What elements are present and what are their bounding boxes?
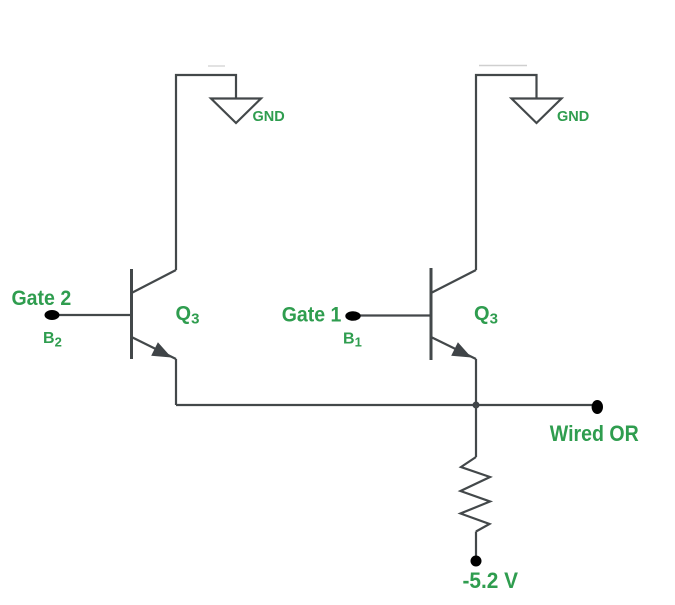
svg-text:Gate 1: Gate 1	[282, 304, 342, 327]
svg-text:B2: B2	[43, 330, 62, 350]
node Wired OR (output dot)	[592, 400, 603, 414]
transistor Q3 (left): emitter diagonal	[132, 337, 177, 359]
wire (right collector top horizontal)	[476, 75, 537, 270]
wire (left emitter vertical)	[175, 359, 177, 405]
svg-text:Q3: Q3	[474, 303, 498, 328]
transistor Q3 (right): base bar	[430, 268, 433, 360]
transistor Q3 (left): collector diagonal	[132, 270, 177, 293]
wire (resistor top lead)	[475, 405, 477, 457]
junction (wired-OR node)	[473, 402, 480, 409]
label -5.2 V	[463, 568, 519, 593]
transistor Q3 (right): collector diagonal	[431, 270, 476, 293]
svg-text:GND: GND	[253, 109, 285, 125]
svg-text:Q3: Q3	[176, 303, 200, 328]
wire (right emitter vertical)	[475, 359, 477, 405]
wire (right base wire)	[353, 314, 430, 316]
node B2 (input dot)	[45, 310, 60, 320]
transistor Q3 (left): emitter arrow	[151, 342, 171, 357]
svg-text:GND: GND	[557, 109, 589, 125]
transistor Q3 (left): base bar	[130, 269, 133, 359]
svg-text:B1: B1	[343, 331, 362, 350]
node -5.2V terminal dot	[471, 556, 482, 567]
resistor R (zigzag)	[461, 457, 491, 532]
label Wired OR	[550, 422, 639, 446]
svg-text:-5.2 V: -5.2 V	[463, 568, 519, 593]
wire (left collector top horizontal)	[176, 75, 236, 270]
transistor Q3 (right): emitter diagonal	[431, 337, 476, 359]
wire (bottom horizontal rail)	[176, 404, 592, 406]
transistor Q3 (right): emitter arrow	[451, 342, 471, 357]
wire (faint artifact above right top wire)	[479, 65, 527, 67]
svg-text:Wired OR: Wired OR	[550, 422, 639, 446]
label Gate 1	[282, 304, 342, 327]
ground (left GND symbol)	[211, 99, 261, 124]
wire (left base wire)	[52, 314, 130, 316]
label Gate 2	[12, 287, 72, 310]
ground (right GND symbol)	[512, 99, 562, 124]
svg-text:Gate 2: Gate 2	[12, 287, 72, 310]
node B1 (input dot)	[345, 311, 360, 321]
wire (resistor bottom lead)	[475, 532, 477, 557]
wire (faint artifact above left top wire)	[208, 65, 225, 67]
